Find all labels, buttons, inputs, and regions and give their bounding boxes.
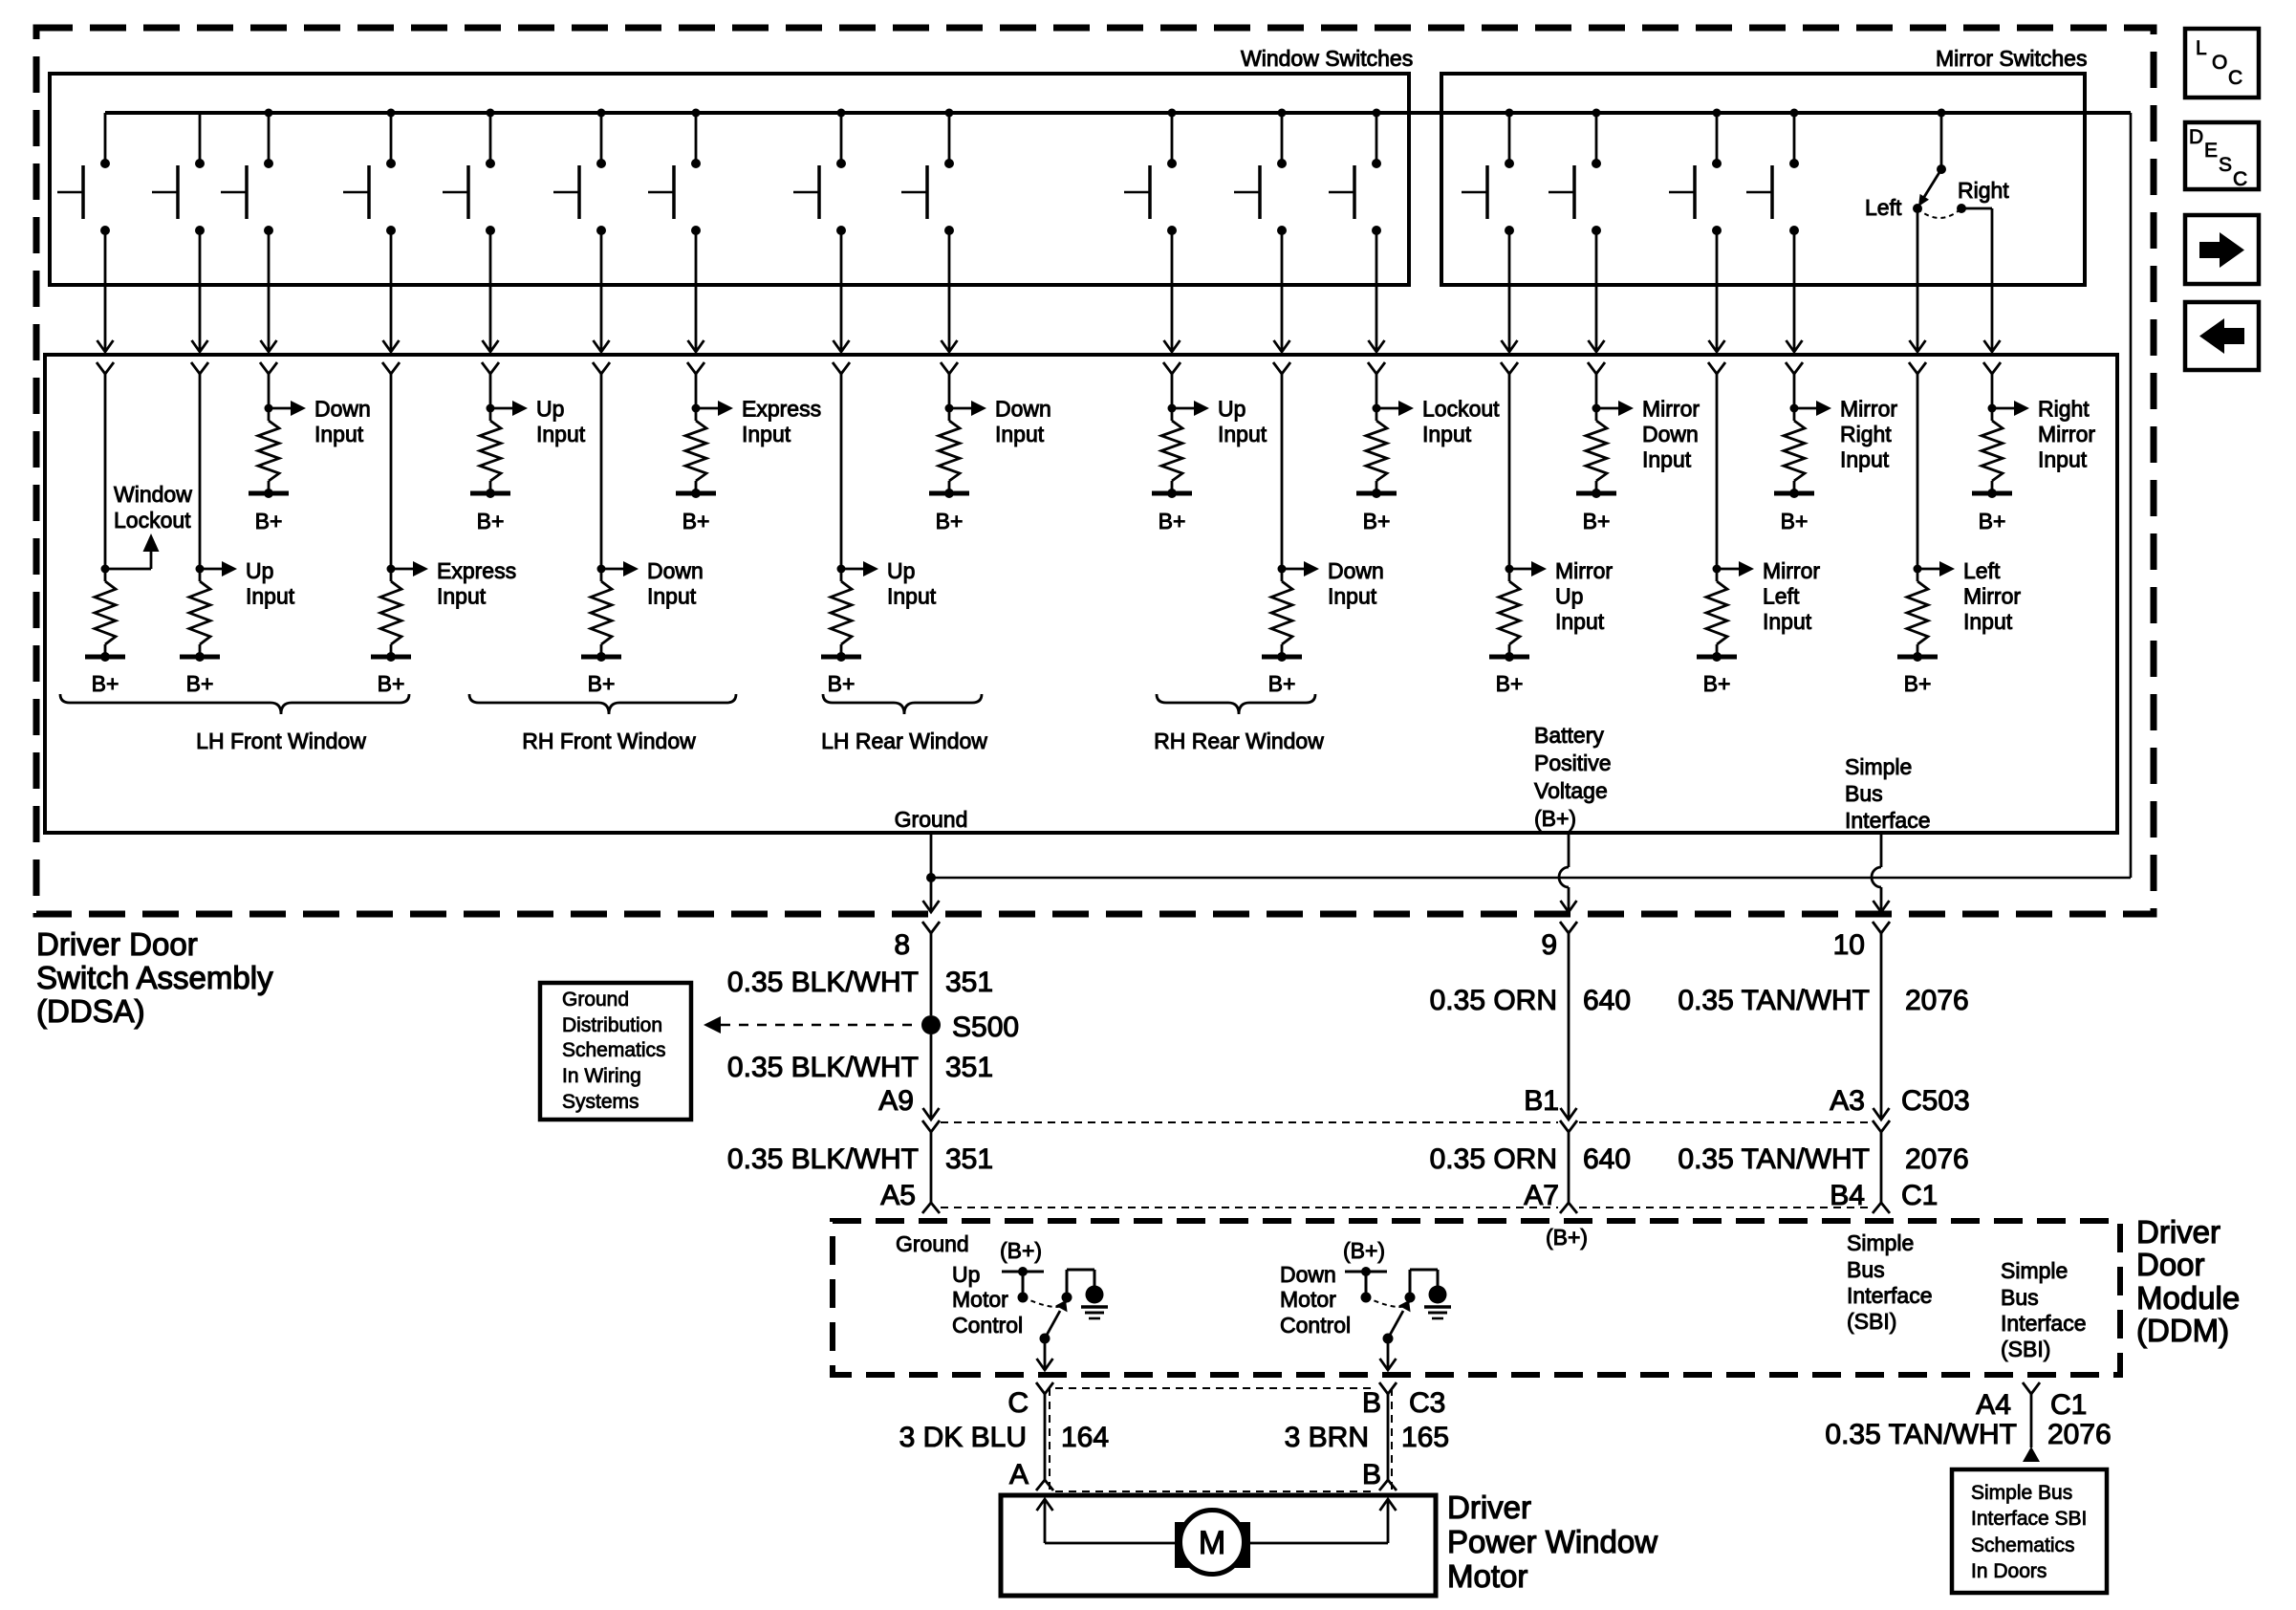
svg-text:Down: Down — [314, 397, 371, 422]
svg-text:C: C — [2233, 168, 2247, 190]
svg-text:C1: C1 — [2050, 1389, 2087, 1421]
pushbutton switch SW3 — [221, 109, 273, 236]
signal arrow: Down Input — [601, 558, 704, 609]
node J5 — [487, 404, 495, 413]
icon: LOC box — [2185, 29, 2259, 98]
wire: R5 to B+ terminal — [489, 481, 492, 493]
resistor R9 — [939, 421, 960, 481]
svg-text:Mirror: Mirror — [1963, 584, 2021, 609]
wire: pin 14 to junction — [1595, 374, 1598, 421]
svg-text:B+: B+ — [1363, 509, 1391, 533]
connector C503 halves (SBI wire) — [1873, 1120, 1890, 1213]
svg-text:B+: B+ — [1703, 671, 1731, 696]
wire: SW5 output drop — [483, 230, 499, 352]
svg-text:Schematics: Schematics — [562, 1039, 666, 1061]
signal arrow: Up Input — [1172, 397, 1267, 447]
svg-text:Left: Left — [1763, 584, 1800, 609]
wire: pin 15 to junction — [1716, 374, 1719, 581]
svg-text:Input: Input — [1555, 609, 1605, 634]
B+ terminal 5 — [470, 489, 510, 533]
Driver Power Window Motor box — [1001, 1495, 1436, 1596]
svg-text:Input: Input — [1328, 584, 1377, 609]
svg-text:2076: 2076 — [1905, 985, 1969, 1016]
connector pin 15 (DDSA input) — [1708, 362, 1725, 374]
B+ terminal 15 — [1697, 652, 1737, 696]
window switches box — [50, 74, 1409, 285]
node J9 — [945, 404, 954, 413]
svg-text:9: 9 — [1541, 929, 1557, 961]
svg-text:Interface: Interface — [2001, 1311, 2087, 1336]
svg-text:RH Front Window: RH Front Window — [522, 729, 696, 753]
wire: pin 9 to junction — [948, 374, 951, 421]
wire: R1 to B+ terminal — [104, 644, 107, 657]
pin label: Battery Positive Voltage (B+) — [1534, 723, 1612, 831]
svg-text:Window: Window — [114, 482, 192, 507]
svg-text:0.35 TAN/WHT: 0.35 TAN/WHT — [1825, 1419, 2017, 1450]
node J3 — [265, 404, 273, 413]
B+ terminal 18 — [1972, 489, 2012, 533]
svg-text:Driver: Driver — [1447, 1490, 1531, 1525]
wire 351: 0.35 BLK/WHT (upper) — [727, 933, 993, 1015]
svg-text:Mirror: Mirror — [1642, 397, 1700, 422]
resistor R14 — [1586, 421, 1607, 481]
node: ground junction — [926, 873, 936, 882]
resistor R4 — [380, 581, 401, 644]
node J2 — [196, 565, 205, 574]
connector pin 12 (DDSA input) — [1368, 362, 1385, 374]
wire: SW1 output drop — [97, 230, 114, 352]
resistor R10 — [1161, 421, 1182, 481]
wire: selector Right output — [1961, 208, 2001, 352]
wire: R7 to B+ terminal — [695, 481, 698, 493]
B+ terminal 8 — [821, 652, 861, 696]
svg-text:C1: C1 — [1901, 1180, 1938, 1211]
svg-text:Down: Down — [647, 558, 704, 583]
svg-text:Up: Up — [536, 397, 564, 422]
wire: pin 1 to junction — [104, 374, 107, 581]
svg-text:Down: Down — [1328, 558, 1384, 583]
wire: Down motor control output — [1380, 1338, 1397, 1370]
wire: SW16 output drop — [1787, 230, 1803, 352]
svg-text:Ground: Ground — [896, 1231, 969, 1256]
svg-text:0.35 ORN: 0.35 ORN — [1430, 1143, 1557, 1175]
connector pin 1 (DDSA input) — [97, 362, 114, 374]
wire 640: 0.35 ORN (lower) — [1430, 1143, 1631, 1175]
pushbutton switch SW4 — [343, 109, 396, 236]
wire 2076: 0.35 TAN/WHT (lower) — [1678, 1143, 1968, 1175]
svg-text:Right: Right — [1840, 422, 1892, 446]
svg-text:Interface: Interface — [1845, 808, 1931, 833]
wire: SW11 output drop — [1274, 230, 1290, 352]
pushbutton switch SW1 — [57, 113, 110, 235]
node J10 — [1168, 404, 1177, 413]
svg-text:Right: Right — [2038, 397, 2090, 422]
B+ terminal 13 — [1489, 652, 1529, 696]
reference box: Simple Bus Interface SBI Schematics In Doors — [1952, 1469, 2107, 1593]
wire: pin 11 to junction — [1281, 374, 1284, 581]
svg-text:In Doors: In Doors — [1971, 1560, 2047, 1582]
wire: SBI pin 10 drop (hop over ground wire) — [1872, 833, 1890, 912]
wire: pin 7 to junction — [695, 374, 698, 421]
svg-text:Up: Up — [1555, 584, 1583, 609]
svg-text:B+: B+ — [936, 509, 964, 533]
svg-text:A: A — [1009, 1459, 1029, 1490]
motor M1 — [1175, 1511, 1250, 1575]
wire: pin 5 to junction — [489, 374, 492, 421]
wire: R9 to B+ terminal — [948, 481, 951, 493]
svg-text:B+: B+ — [92, 671, 119, 696]
svg-text:LH Rear Window: LH Rear Window — [821, 729, 987, 753]
icon: next arrow box — [2185, 215, 2259, 284]
svg-text:Interface SBI: Interface SBI — [1971, 1508, 2087, 1530]
connector pin 7 (DDSA input) — [687, 362, 704, 374]
wire: R8 to B+ terminal — [840, 644, 843, 657]
svg-text:Motor: Motor — [1447, 1558, 1527, 1594]
svg-text:Input: Input — [536, 422, 586, 446]
B+ terminal 16 — [1774, 489, 1814, 533]
wire: R12 to B+ terminal — [1375, 481, 1378, 493]
wire: Up motor control output — [1037, 1338, 1053, 1370]
svg-text:A3: A3 — [1830, 1085, 1865, 1117]
svg-text:B+: B+ — [682, 509, 710, 533]
svg-text:Lockout: Lockout — [114, 508, 191, 533]
svg-text:Input: Input — [1840, 447, 1890, 472]
node J12 — [1373, 404, 1381, 413]
svg-text:Ground: Ground — [562, 989, 629, 1011]
ground terminal (Down motor control) — [1424, 1286, 1451, 1319]
svg-text:Up: Up — [952, 1262, 980, 1287]
signal arrow: Express Input — [391, 558, 516, 609]
pin label: Simple Bus Interface (SBI) pin B4 — [1847, 1230, 1933, 1334]
svg-text:RH Rear Window: RH Rear Window — [1154, 729, 1324, 753]
svg-text:A7: A7 — [1524, 1180, 1559, 1211]
connector C503 dashed outline — [941, 1122, 1870, 1207]
connector pin 8 (DDSA input) — [833, 362, 850, 374]
pushbutton switch SW6 — [553, 109, 606, 236]
pin labels C / A — [1007, 1387, 1029, 1490]
svg-text:B+: B+ — [186, 671, 214, 696]
svg-text:Right: Right — [1958, 178, 2009, 203]
B+ terminal 2 — [180, 652, 220, 696]
node J13 — [1505, 565, 1514, 574]
svg-text:Input: Input — [1218, 422, 1267, 446]
svg-text:0.35 TAN/WHT: 0.35 TAN/WHT — [1678, 985, 1870, 1016]
svg-text:Input: Input — [2038, 447, 2088, 472]
wire 2076: 0.35 TAN/WHT (upper) — [1678, 933, 1968, 1119]
svg-text:B+: B+ — [828, 671, 856, 696]
svg-text:C: C — [1007, 1387, 1029, 1419]
svg-text:Input: Input — [647, 584, 697, 609]
svg-text:B+: B+ — [1159, 509, 1186, 533]
wire 351: 0.35 BLK/WHT (lower) — [727, 1143, 993, 1175]
resistor R2 — [189, 581, 210, 644]
wire: motor lead B — [1380, 1499, 1397, 1543]
svg-text:B+: B+ — [1979, 509, 2006, 533]
svg-text:B+: B+ — [1583, 509, 1611, 533]
svg-text:Ground: Ground — [895, 807, 968, 832]
svg-text:Simple: Simple — [2001, 1258, 2068, 1283]
svg-text:Simple: Simple — [1845, 754, 1912, 779]
svg-text:2076: 2076 — [1905, 1143, 1969, 1175]
svg-text:Left: Left — [1963, 558, 2001, 583]
wire 165: 3 BRN — [1285, 1422, 1449, 1453]
connector C3 dashed outline — [1050, 1388, 1392, 1491]
pin labels B4 / C1 — [1830, 1180, 1938, 1211]
svg-text:B: B — [1362, 1387, 1381, 1419]
pin labels B / B / C3 — [1362, 1387, 1445, 1490]
svg-text:(SBI): (SBI) — [2001, 1337, 2050, 1361]
svg-text:B4: B4 — [1830, 1180, 1865, 1211]
svg-text:LH Front Window: LH Front Window — [196, 729, 366, 753]
svg-text:Mirror: Mirror — [2038, 422, 2095, 446]
svg-text:(B+): (B+) — [1000, 1238, 1042, 1263]
signal arrow: Up Input — [841, 558, 937, 609]
wire: motor lead A — [1037, 1499, 1053, 1543]
connector C3 pin C wire (164) — [1036, 1382, 1053, 1490]
svg-text:164: 164 — [1061, 1422, 1109, 1453]
connector pin 14 (DDSA input) — [1588, 362, 1605, 374]
icon: previous arrow box — [2185, 302, 2259, 370]
wire: R18 to B+ terminal — [1991, 481, 1994, 493]
group brace: RH Rear Window — [1157, 694, 1315, 714]
wire: pin 12 to junction — [1375, 374, 1378, 421]
svg-text:S500: S500 — [952, 1012, 1019, 1043]
svg-text:351: 351 — [945, 967, 993, 998]
group brace: RH Front Window — [469, 694, 736, 714]
resistor R6 — [591, 581, 612, 644]
B+ terminal 11 — [1262, 652, 1302, 696]
svg-text:B+: B+ — [1904, 671, 1932, 696]
svg-text:(DDSA): (DDSA) — [36, 993, 145, 1029]
pin label: Simple Bus Interface (SBI) pin A4 — [2001, 1258, 2087, 1361]
svg-text:Module: Module — [2136, 1280, 2240, 1316]
svg-text:Driver Door: Driver Door — [36, 926, 198, 962]
wire: R10 to B+ terminal — [1171, 481, 1174, 493]
svg-text:Control: Control — [1280, 1313, 1351, 1338]
wire: R16 to B+ terminal — [1793, 481, 1796, 493]
svg-text:L: L — [2196, 37, 2207, 59]
signal arrow: Mirror Left Input — [1717, 558, 1820, 634]
signal arrow: Left Mirror Input — [1917, 558, 2021, 634]
wire: R4 to B+ terminal — [390, 644, 393, 657]
svg-text:Mirror: Mirror — [1555, 558, 1613, 583]
B+ terminal 9 — [929, 489, 969, 533]
label: Driver Power Window Motor — [1447, 1490, 1657, 1594]
resistor R7 — [685, 421, 706, 481]
wire 2076: 0.35 TAN/WHT (to doors) — [1825, 1394, 2111, 1450]
Up motor control wiper arm — [1040, 1300, 1068, 1344]
svg-text:C: C — [2228, 67, 2242, 89]
pin label: Simple Bus Interface — [1845, 754, 1931, 833]
wire: SW2 output drop — [192, 230, 208, 352]
connector pin 2 (DDSA input) — [191, 362, 208, 374]
connector pin 13 (DDSA input) — [1501, 362, 1518, 374]
svg-text:C503: C503 — [1901, 1085, 1970, 1117]
svg-text:Distribution: Distribution — [562, 1014, 662, 1036]
svg-text:Lockout: Lockout — [1422, 397, 1500, 422]
signal arrow: Right Mirror Input — [1992, 397, 2095, 472]
svg-text:Control: Control — [952, 1313, 1023, 1338]
svg-text:Door: Door — [2136, 1247, 2205, 1282]
wire: R2 to B+ terminal — [199, 644, 202, 657]
svg-text:B+: B+ — [1268, 671, 1296, 696]
pushbutton switch SW7 — [648, 109, 701, 236]
mirror switches box — [1441, 74, 2085, 285]
bus wire (switch common to ground) — [105, 111, 2131, 115]
wire: selector Left output — [1910, 208, 1926, 352]
svg-text:Mirror Switches: Mirror Switches — [1936, 46, 2087, 71]
svg-text:Battery: Battery — [1534, 723, 1604, 748]
connector pin 3 (DDSA input) — [260, 362, 277, 374]
wire: pin 4 to junction — [390, 374, 393, 581]
pushbutton switch SW15 — [1669, 109, 1722, 236]
wire: bus right drop — [2130, 113, 2133, 878]
reference line to Ground Distribution — [704, 1016, 920, 1033]
svg-text:Input: Input — [887, 584, 937, 609]
Up motor control switch — [1000, 1238, 1094, 1307]
resistor R3 — [258, 421, 279, 481]
Down motor control wiper arm — [1383, 1300, 1411, 1344]
wire: pin 2 to junction — [199, 374, 202, 581]
wire: pin 13 to junction — [1508, 374, 1511, 581]
svg-text:Up: Up — [246, 558, 273, 583]
group brace: LH Front Window — [60, 694, 409, 714]
svg-text:Switch Assembly: Switch Assembly — [36, 960, 273, 995]
wire: pin 3 to junction — [268, 374, 271, 421]
signal arrow: Up Input — [200, 558, 295, 609]
svg-text:A4: A4 — [1976, 1389, 2011, 1421]
svg-text:2076: 2076 — [2047, 1419, 2112, 1450]
svg-text:(B+): (B+) — [1534, 806, 1576, 831]
wire: R17 to B+ terminal — [1917, 644, 1919, 657]
svg-text:In Wiring: In Wiring — [562, 1065, 641, 1087]
pushbutton switch SW14 — [1549, 109, 1601, 236]
svg-text:B+: B+ — [477, 509, 505, 533]
svg-text:351: 351 — [945, 1052, 993, 1083]
svg-text:Mirror: Mirror — [1840, 397, 1897, 422]
svg-text:165: 165 — [1401, 1422, 1449, 1453]
wire: R14 to B+ terminal — [1595, 481, 1598, 493]
node J17 — [1914, 565, 1922, 574]
label: Down Motor Control — [1280, 1262, 1351, 1338]
connector C503 halves (B+ wire) — [1560, 1120, 1577, 1213]
node J11 — [1278, 565, 1287, 574]
wire: SW8 output drop — [834, 230, 850, 352]
wire: R11 to B+ terminal — [1281, 644, 1284, 657]
svg-text:Schematics: Schematics — [1971, 1534, 2075, 1556]
svg-text:B+: B+ — [588, 671, 616, 696]
pushbutton switch SW8 — [793, 109, 846, 236]
wire: pin 6 to junction — [600, 374, 603, 581]
pin labels A4 / C1 — [1976, 1389, 2087, 1421]
connector pin 11 (DDSA input) — [1273, 362, 1290, 374]
pushbutton switch SW2 — [152, 113, 205, 235]
svg-text:3 BRN: 3 BRN — [1285, 1422, 1369, 1453]
wire: pin 17 to junction — [1917, 374, 1919, 581]
wire: SW3 output drop — [261, 230, 277, 352]
svg-text:Bus: Bus — [1847, 1257, 1885, 1282]
wire: R13 to B+ terminal — [1508, 644, 1511, 657]
svg-text:(B+): (B+) — [1546, 1225, 1588, 1250]
resistor R8 — [831, 581, 852, 644]
Driver Door Switch Assembly dashed boundary — [36, 28, 2154, 914]
svg-text:Driver: Driver — [2136, 1214, 2220, 1250]
ground terminal (Up motor control) — [1081, 1286, 1108, 1319]
svg-text:Window Switches: Window Switches — [1241, 46, 1413, 71]
svg-text:Up: Up — [887, 558, 915, 583]
icon: DESC box — [2185, 122, 2259, 190]
resistor R11 — [1271, 581, 1292, 644]
svg-text:0.35 ORN: 0.35 ORN — [1430, 985, 1557, 1016]
wire: SW6 output drop — [594, 230, 610, 352]
node J1 — [101, 565, 110, 574]
wire 640: 0.35 ORN (upper) — [1430, 933, 1631, 1119]
wire 164: 3 DK BLU — [899, 1422, 1109, 1453]
connector C1 pin A4 — [2023, 1382, 2040, 1394]
B+ terminal 6 — [581, 652, 621, 696]
resistor R5 — [480, 421, 501, 481]
wire: SW9 output drop — [942, 230, 958, 352]
svg-text:Up: Up — [1218, 397, 1245, 422]
connector pin 9 — [1560, 922, 1577, 933]
selector switch SW17 (mirror Left/Right) — [1913, 109, 1966, 219]
svg-text:A9: A9 — [878, 1085, 914, 1117]
svg-text:Input: Input — [246, 584, 295, 609]
signal arrow: Up Input — [490, 397, 586, 447]
node J16 — [1790, 404, 1799, 413]
svg-text:0.35 TAN/WHT: 0.35 TAN/WHT — [1678, 1143, 1870, 1175]
svg-text:(SBI): (SBI) — [1847, 1309, 1896, 1334]
pushbutton switch SW9 — [901, 109, 954, 236]
connector pin 10 (DDSA input) — [1163, 362, 1180, 374]
wire: SW12 output drop — [1369, 230, 1385, 352]
svg-text:Mirror: Mirror — [1763, 558, 1820, 583]
Down motor control switch — [1343, 1238, 1438, 1307]
svg-text:Positive: Positive — [1534, 751, 1612, 775]
connector pin 4 (DDSA input) — [382, 362, 400, 374]
svg-text:Systems: Systems — [562, 1091, 639, 1113]
signal arrow: Mirror Up Input — [1509, 558, 1613, 634]
svg-text:351: 351 — [945, 1143, 993, 1175]
wire: SW13 output drop — [1502, 230, 1518, 352]
node J4 — [387, 565, 396, 574]
svg-text:0.35 BLK/WHT: 0.35 BLK/WHT — [727, 1052, 919, 1083]
signal arrow: Mirror Down Input — [1596, 397, 1700, 472]
pushbutton switch SW16 — [1746, 109, 1799, 236]
connector pin 9 (DDSA input) — [941, 362, 958, 374]
wire: motor internal — [1045, 1542, 1388, 1545]
resistor R18 — [1982, 421, 2003, 481]
pushbutton switch SW11 — [1234, 109, 1287, 236]
B+ terminal 12 — [1356, 489, 1397, 533]
svg-text:Down: Down — [1280, 1262, 1336, 1287]
B+ terminal 14 — [1576, 489, 1616, 533]
pin label A3 / connector C503 — [1830, 1085, 1969, 1117]
resistor R12 — [1366, 421, 1387, 481]
B+ terminal 7 — [676, 489, 716, 533]
group brace: LH Rear Window — [823, 694, 982, 714]
splice S500 — [921, 1012, 1019, 1043]
label: Driver Door Module (DDM) — [2136, 1214, 2240, 1348]
svg-text:Express: Express — [742, 397, 821, 422]
pushbutton switch SW13 — [1462, 109, 1514, 236]
reference box: Ground Distribution Schematics In Wiring Systems — [540, 983, 691, 1120]
node J8 — [837, 565, 846, 574]
connector pin 6 (DDSA input) — [593, 362, 610, 374]
signal arrow: Down Input — [949, 397, 1051, 447]
svg-text:Left: Left — [1865, 195, 1902, 220]
svg-text:Down: Down — [1642, 422, 1699, 446]
